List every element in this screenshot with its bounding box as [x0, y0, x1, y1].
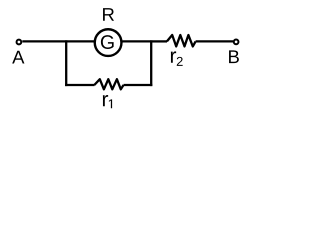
label R: [103, 8, 114, 21]
resistor r1: [94, 79, 123, 89]
label r1: [103, 95, 108, 106]
wire bottom left: [65, 84, 94, 86]
wire resistor r2 to terminal B: [196, 40, 233, 42]
label A: [12, 51, 24, 64]
label G: [101, 35, 114, 49]
wire left branch vertical: [65, 40, 67, 86]
galvanometer G: [95, 29, 122, 56]
wire A to left node: [22, 40, 66, 42]
wire galvanometer to right node: [122, 40, 151, 42]
wire left node to galvanometer: [66, 40, 94, 42]
wire right node to resistor r2: [151, 40, 167, 42]
label B: [229, 50, 239, 63]
resistor r2: [167, 35, 196, 46]
terminal B: [234, 40, 239, 45]
wire right branch vertical: [150, 40, 152, 86]
label r2: [171, 51, 176, 62]
wire bottom right: [124, 84, 153, 86]
terminal A: [17, 40, 22, 45]
